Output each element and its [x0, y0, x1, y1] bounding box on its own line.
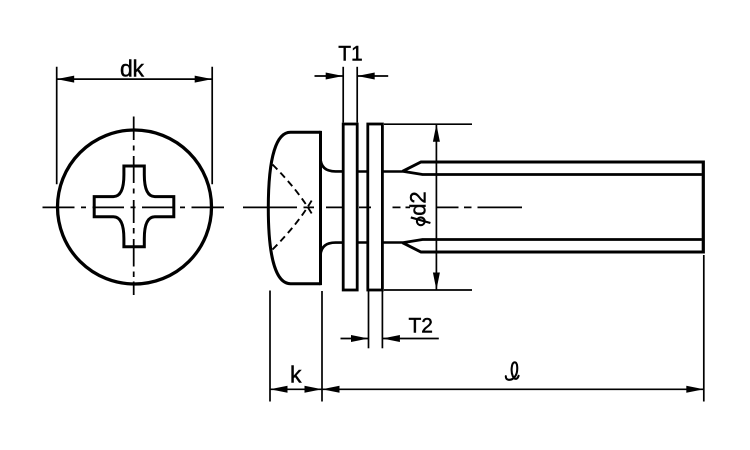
svg-text:k: k: [290, 362, 302, 388]
svg-text:dk: dk: [120, 56, 144, 82]
svg-text:T1: T1: [338, 43, 363, 66]
svg-text:T2: T2: [408, 315, 433, 338]
svg-text:d2: d2: [405, 191, 430, 215]
